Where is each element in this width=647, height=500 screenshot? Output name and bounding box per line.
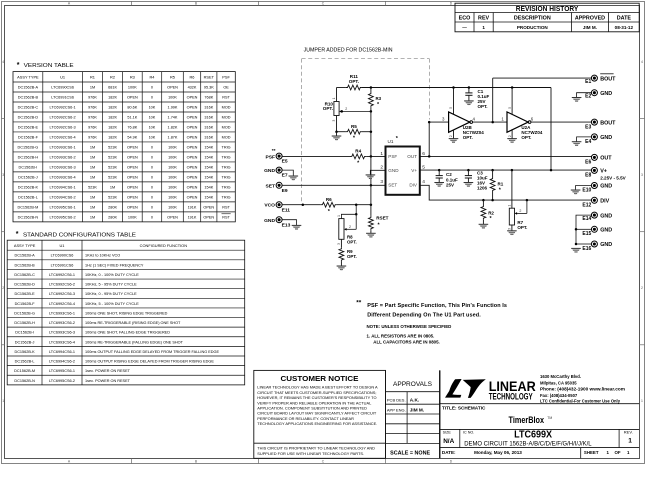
svg-text:DATE: DATE <box>617 16 632 22</box>
svg-text:V+: V+ <box>600 169 607 175</box>
svg-text:DC1562B-H: DC1562B-H <box>18 156 39 160</box>
ground E2 <box>572 97 582 99</box>
svg-text:DC1562B-C: DC1562B-C <box>14 273 35 277</box>
inverter U2B NC7WZ04 <box>449 112 470 132</box>
svg-text:E1: E1 <box>585 79 591 85</box>
svg-text:LTC6992CS6-4: LTC6992CS6-4 <box>49 302 75 306</box>
svg-text:100K: 100K <box>168 96 177 100</box>
svg-text:LTC6992CS6-3: LTC6992CS6-3 <box>50 126 76 130</box>
svg-text:LTC6993CS6-2: LTC6993CS6-2 <box>49 321 75 325</box>
svg-text:154K: 154K <box>204 166 213 170</box>
svg-text:SET: SET <box>265 183 275 189</box>
connector E9 <box>276 182 282 188</box>
svg-text:E7: E7 <box>282 173 288 179</box>
svg-text:OPEN: OPEN <box>187 106 198 110</box>
connector E2 <box>591 90 597 96</box>
svg-text:TRIG: TRIG <box>222 186 231 190</box>
ground R9 <box>337 265 347 267</box>
svg-text:DC1562B-G: DC1562B-G <box>18 146 39 150</box>
svg-text:OPEN: OPEN <box>127 96 138 100</box>
wire E7 to ground <box>282 170 293 176</box>
svg-text:CUSTOMER NOTICE: CUSTOMER NOTICE <box>281 374 359 383</box>
svg-text:GND: GND <box>600 242 612 248</box>
svg-text:GND: GND <box>388 168 399 173</box>
connector E13 <box>276 217 282 223</box>
svg-text:1M: 1M <box>90 86 95 90</box>
svg-text:6: 6 <box>531 117 534 122</box>
wire PSF line <box>282 155 351 157</box>
svg-text:LTC6995CS6-1: LTC6995CS6-1 <box>49 369 75 373</box>
svg-text:DC1562B-N: DC1562B-N <box>18 215 39 219</box>
resistor R11 <box>346 85 362 90</box>
svg-text:LTC6993CS6-4: LTC6993CS6-4 <box>49 340 75 344</box>
svg-text:OPEN: OPEN <box>203 205 214 209</box>
svg-text:1M: 1M <box>90 146 95 150</box>
wire VCC rail <box>337 87 346 89</box>
svg-text:3: 3 <box>641 173 643 177</box>
svg-text:54.9K: 54.9K <box>127 136 137 140</box>
svg-text:U1: U1 <box>60 243 65 248</box>
svg-text:PRODUCTION: PRODUCTION <box>517 25 549 30</box>
connector E12 <box>591 197 597 203</box>
svg-text:0: 0 <box>151 176 153 180</box>
svg-text:2: 2 <box>2 286 4 290</box>
resistor R9 <box>340 239 342 247</box>
svg-text:976K: 976K <box>88 136 97 140</box>
svg-text:Different Depending On The U1: Different Depending On The U1 Part used. <box>367 313 481 319</box>
svg-text:95.3K: 95.3K <box>204 86 214 90</box>
ground U2A <box>507 138 517 140</box>
svg-text:DC1562B-G: DC1562B-G <box>14 311 35 315</box>
svg-text:E2: E2 <box>585 94 591 100</box>
svg-text:182K: 182K <box>108 136 117 140</box>
svg-text:10K: 10K <box>149 106 156 110</box>
svg-text:5: 5 <box>449 107 453 109</box>
svg-text:R4: R4 <box>355 149 361 154</box>
svg-text:10KHz, 0 - 95% DUTY CYCLE: 10KHz, 0 - 95% DUTY CYCLE <box>85 292 137 296</box>
svg-text:LTC6993CS6-1: LTC6993CS6-1 <box>49 311 75 315</box>
svg-text:LTC6990CS6: LTC6990CS6 <box>51 86 74 90</box>
svg-text:1KHz to 10KHz VCO: 1KHz to 10KHz VCO <box>85 254 120 258</box>
svg-text:OPEN: OPEN <box>127 166 138 170</box>
svg-text:TRIG: TRIG <box>222 176 231 180</box>
svg-text:LTC6992CS6-2: LTC6992CS6-2 <box>50 116 76 120</box>
svg-text:OPEN: OPEN <box>187 116 198 120</box>
svg-text:OPEN: OPEN <box>187 176 198 180</box>
wire SET line <box>282 184 385 186</box>
svg-text:1.99K: 1.99K <box>168 106 178 110</box>
svg-text:1M: 1M <box>90 166 95 170</box>
svg-text:TECHNOLOGY: TECHNOLOGY <box>489 391 533 401</box>
svg-text:1: 1 <box>332 97 336 99</box>
svg-text:LTC6994CS6-1: LTC6994CS6-1 <box>49 350 75 354</box>
connector E3 <box>591 119 597 125</box>
svg-text:ASSY TYPE: ASSY TYPE <box>17 75 39 80</box>
resistor RSET <box>370 205 372 216</box>
svg-text:LTC6994CS6-1: LTC6994CS6-1 <box>50 186 76 190</box>
svg-text:316K: 316K <box>204 126 213 130</box>
svg-text:100K: 100K <box>168 186 177 190</box>
svg-text:JIM M.: JIM M. <box>583 25 597 30</box>
svg-text:08-31-12: 08-31-12 <box>615 25 634 30</box>
svg-text:DC1562B-M: DC1562B-M <box>17 205 38 209</box>
svg-text:APPROVED: APPROVED <box>575 16 605 22</box>
svg-text:OPT.: OPT. <box>463 135 473 140</box>
wire E4 ground <box>577 137 592 142</box>
svg-text:1.87K: 1.87K <box>168 136 178 140</box>
wire E2 ground <box>577 93 592 98</box>
svg-text:1sec. POWER ON RESET: 1sec. POWER ON RESET <box>85 369 131 373</box>
svg-text:PSF: PSF <box>222 75 230 80</box>
svg-text:APP ENG.: APP ENG. <box>387 408 406 413</box>
svg-text:*: * <box>378 223 381 229</box>
svg-text:OPEN: OPEN <box>127 156 138 160</box>
svg-text:B: B <box>195 459 198 463</box>
svg-text:DC1562B-K: DC1562B-K <box>18 186 39 190</box>
title block <box>254 370 386 458</box>
svg-text:25V: 25V <box>446 182 454 187</box>
svg-text:523K: 523K <box>108 195 117 199</box>
svg-text:DC1562B-J: DC1562B-J <box>15 340 35 344</box>
svg-text:DC1562B-K: DC1562B-K <box>14 350 35 354</box>
svg-text:LTC6993CS6-3: LTC6993CS6-3 <box>49 331 75 335</box>
svg-text:100K: 100K <box>128 86 137 90</box>
svg-text:*: * <box>17 62 20 69</box>
svg-text:LTC6992CS6-2: LTC6992CS6-2 <box>49 283 75 287</box>
wire R10 wiper to node <box>370 111 372 131</box>
svg-text:LTC6993CS6-1: LTC6993CS6-1 <box>50 146 76 150</box>
svg-text:CONFIGURED FUNCTION: CONFIGURED FUNCTION <box>140 243 188 248</box>
svg-text:Phone: (408)432-1900 www.li: Phone: (408)432-1900 www.linear.com <box>540 387 625 392</box>
svg-text:REV: REV <box>478 16 489 22</box>
connector E5 <box>276 153 282 159</box>
svg-text:1: 1 <box>2 399 4 403</box>
wire SET column <box>370 132 372 205</box>
svg-text:U1: U1 <box>388 139 394 144</box>
svg-text:RST: RST <box>222 215 230 219</box>
svg-text:1M: 1M <box>110 186 115 190</box>
svg-text:LTC6990CS6: LTC6990CS6 <box>51 254 74 258</box>
svg-text:ASSY TYPE: ASSY TYPE <box>14 243 36 248</box>
svg-text:2: 2 <box>349 225 351 229</box>
connector E6 <box>591 154 597 160</box>
svg-text:10K: 10K <box>149 126 156 130</box>
svg-text:R1: R1 <box>498 182 504 187</box>
ground C2 <box>434 182 444 184</box>
svg-text:D: D <box>450 459 453 463</box>
svg-text:DC1562B-F: DC1562B-F <box>15 302 36 306</box>
svg-text:DC1562B-D: DC1562B-D <box>14 283 35 287</box>
svg-text:REV.: REV. <box>624 430 633 435</box>
svg-text:GND: GND <box>600 184 612 190</box>
svg-text:0: 0 <box>151 215 153 219</box>
svg-text:OUT: OUT <box>407 154 417 159</box>
svg-text:DC1562B-F: DC1562B-F <box>18 136 39 140</box>
potentiometer R8 <box>339 219 344 240</box>
svg-text:JUMPER ADDED FOR DC1562B-MIN: JUMPER ADDED FOR DC1562B-MIN <box>304 48 393 54</box>
svg-text:0: 0 <box>151 86 153 90</box>
svg-text:1.74K: 1.74K <box>168 116 178 120</box>
svg-text:OPEN: OPEN <box>187 186 198 190</box>
svg-text:GND: GND <box>264 218 275 224</box>
svg-text:2: 2 <box>345 107 347 111</box>
wire E14-E16 ground bus <box>576 215 591 244</box>
svg-text:LTC6995CS6-1: LTC6995CS6-1 <box>50 205 76 209</box>
svg-text:280K: 280K <box>108 215 117 219</box>
svg-text:OPEN: OPEN <box>187 126 198 130</box>
svg-text:LTC699X: LTC699X <box>514 430 552 441</box>
connector E14 <box>591 212 597 218</box>
svg-text:432K: 432K <box>188 86 197 90</box>
svg-text:OPEN: OPEN <box>187 156 198 160</box>
svg-text:OPEN: OPEN <box>127 195 138 199</box>
svg-text:3: 3 <box>337 243 341 245</box>
svg-text:OPT.: OPT. <box>349 79 359 84</box>
svg-text:LTC6992CS6-4: LTC6992CS6-4 <box>50 136 76 140</box>
svg-text:2: 2 <box>519 209 521 213</box>
resistor R2 <box>482 200 484 205</box>
svg-text:RST: RST <box>222 205 230 209</box>
svg-text:2: 2 <box>508 135 512 137</box>
svg-text:*: * <box>490 216 493 222</box>
svg-text:*: * <box>396 136 399 142</box>
svg-text:VERSION TABLE: VERSION TABLE <box>24 63 74 69</box>
svg-text:DC1562B-J: DC1562B-J <box>18 176 38 180</box>
svg-text:280K: 280K <box>108 205 117 209</box>
svg-text:154K: 154K <box>204 146 213 150</box>
svg-text:2: 2 <box>380 165 383 171</box>
svg-text:3: 3 <box>508 228 512 230</box>
svg-text:154K: 154K <box>204 156 213 160</box>
ground RSET <box>366 232 376 234</box>
svg-text:DC1562B-H: DC1562B-H <box>14 321 35 325</box>
wire U2B out to U2A in <box>473 121 507 123</box>
resistor R4 <box>350 154 366 159</box>
svg-text:4: 4 <box>2 60 4 64</box>
svg-text:976K: 976K <box>88 116 97 120</box>
svg-text:TRIG: TRIG <box>222 166 231 170</box>
resistor R3 <box>370 88 372 93</box>
ground C3 <box>464 182 474 184</box>
svg-text:100K: 100K <box>128 215 137 219</box>
wire BOUTbar net <box>492 78 494 122</box>
ground R5 <box>336 132 338 136</box>
svg-text:LTC6995CS6-2: LTC6995CS6-2 <box>50 215 76 219</box>
svg-text:DC1562B-E: DC1562B-E <box>14 292 35 296</box>
svg-text:Milpitas, CA 95035: Milpitas, CA 95035 <box>540 380 577 385</box>
svg-text:523K: 523K <box>108 146 117 150</box>
connector E10 <box>591 183 597 189</box>
svg-text:100ms RE-TRIGGERABLE (FALLING: 100ms RE-TRIGGERABLE (FALLING EDGE) ONE … <box>85 340 184 344</box>
svg-text:1M: 1M <box>90 195 95 199</box>
svg-text:E15: E15 <box>582 231 591 237</box>
svg-text:DC1562B-I: DC1562B-I <box>19 166 38 170</box>
svg-text:DC1562B-I: DC1562B-I <box>15 331 34 335</box>
svg-text:OPEN: OPEN <box>127 176 138 180</box>
svg-text:4: 4 <box>422 179 425 185</box>
svg-text:*: * <box>377 102 380 108</box>
svg-text:1M: 1M <box>90 215 95 219</box>
svg-text:SET: SET <box>388 183 397 188</box>
svg-text:SHEET: SHEET <box>584 450 599 455</box>
svg-text:100ms ONE SHOT, FALLING EDGE T: 100ms ONE SHOT, FALLING EDGE TRIGGERED <box>85 331 170 335</box>
svg-text:DC1562B-L: DC1562B-L <box>18 195 38 199</box>
svg-text:OF: OF <box>615 450 621 455</box>
svg-text:R4: R4 <box>149 75 155 80</box>
svg-text:PSF: PSF <box>388 154 397 159</box>
svg-text:E11: E11 <box>282 207 291 213</box>
svg-text:*: * <box>16 231 19 238</box>
svg-text:182K: 182K <box>108 126 117 130</box>
svg-text:10K: 10K <box>149 116 156 120</box>
svg-text:MOD: MOD <box>222 116 231 120</box>
svg-text:MOD: MOD <box>222 106 231 110</box>
svg-text:0: 0 <box>151 156 153 160</box>
ground E13 <box>292 224 302 226</box>
svg-text:4: 4 <box>641 60 643 64</box>
svg-text:PSF: PSF <box>265 154 275 160</box>
svg-text:E13: E13 <box>282 222 291 228</box>
svg-text:LTC6995CS6-2: LTC6995CS6-2 <box>49 379 75 383</box>
svg-text:DIV: DIV <box>600 199 609 205</box>
op-amp U1 LTC699X <box>386 147 420 195</box>
svg-text:3: 3 <box>2 173 4 177</box>
svg-text:1sec. POWER ON RESET: 1sec. POWER ON RESET <box>85 379 131 383</box>
svg-text:681K: 681K <box>108 86 117 90</box>
jumper dashed box <box>302 58 430 60</box>
capacitor C1 <box>468 88 470 93</box>
svg-text:R6: R6 <box>190 75 195 80</box>
svg-text:76.8K: 76.8K <box>127 126 137 130</box>
wire R8 branch <box>355 205 357 215</box>
svg-text:DESCRIPTION: DESCRIPTION <box>514 16 551 22</box>
svg-text:Fax: (408)434-0507: Fax: (408)434-0507 <box>540 393 578 398</box>
svg-text:R6: R6 <box>326 197 332 202</box>
svg-text:ALL CAPACITORS ARE IN 0805.: ALL CAPACITORS ARE IN 0805. <box>373 339 439 344</box>
ground R2 <box>479 223 489 225</box>
svg-text:E16: E16 <box>582 246 591 252</box>
svg-text:R5: R5 <box>351 124 357 129</box>
svg-text:OPEN: OPEN <box>187 166 198 170</box>
svg-text:*: * <box>499 187 502 193</box>
resistor R6 <box>321 202 337 207</box>
svg-text:PCB DES.: PCB DES. <box>387 397 406 402</box>
svg-text:OPEN: OPEN <box>127 205 138 209</box>
svg-text:191K: 191K <box>188 205 197 209</box>
svg-text:*: * <box>353 136 356 142</box>
wire U1 GND pin <box>370 170 385 175</box>
connector E1 <box>591 75 597 81</box>
ground E4 <box>572 141 582 143</box>
svg-text:*: * <box>357 161 360 167</box>
svg-text:LTC6992CS6-3: LTC6992CS6-3 <box>49 292 75 296</box>
svg-text:316K: 316K <box>204 136 213 140</box>
svg-text:ECO: ECO <box>459 16 471 22</box>
svg-text:182K: 182K <box>108 96 117 100</box>
svg-text:316K: 316K <box>204 106 213 110</box>
svg-text:OPT.: OPT. <box>323 106 333 111</box>
capacitor C2 <box>438 170 440 176</box>
svg-text:SUPPLIED FOR USE WITH LINEAR T: SUPPLIED FOR USE WITH LINEAR TECHNOLOGY … <box>257 451 364 456</box>
svg-text:R2: R2 <box>110 75 115 80</box>
connector E8 <box>591 167 597 173</box>
svg-text:154K: 154K <box>204 176 213 180</box>
svg-text:GND: GND <box>600 135 612 141</box>
svg-text:STANDARD CONFIGURATIONS TABLE: STANDARD CONFIGURATIONS TABLE <box>23 233 136 239</box>
svg-text:1: 1 <box>627 450 630 455</box>
svg-text:1M: 1M <box>90 205 95 209</box>
svg-text:1.82K: 1.82K <box>168 126 178 130</box>
svg-text:976K: 976K <box>88 126 97 130</box>
svg-text:1: 1 <box>380 151 383 157</box>
ground U1 <box>366 174 376 176</box>
svg-text:0: 0 <box>151 166 153 170</box>
svg-text:182K: 182K <box>108 116 117 120</box>
svg-text:100K: 100K <box>168 166 177 170</box>
svg-text:TM: TM <box>547 416 552 420</box>
svg-text:154K: 154K <box>204 195 213 199</box>
svg-text:LTC6993CS6-4: LTC6993CS6-4 <box>50 176 76 180</box>
svg-text:OPEN: OPEN <box>187 136 198 140</box>
ground U2B <box>449 138 459 140</box>
svg-text:OPT.: OPT. <box>521 135 531 140</box>
svg-text:GND: GND <box>600 228 612 234</box>
wire U2A out to E3 <box>531 121 591 123</box>
svg-text:GND: GND <box>264 168 275 174</box>
svg-text:100K: 100K <box>168 146 177 150</box>
svg-text:1206: 1206 <box>477 186 488 191</box>
svg-text:1630 McCarthy Blvd.: 1630 McCarthy Blvd. <box>540 374 581 379</box>
connector E15 <box>591 226 597 232</box>
svg-text:0: 0 <box>151 96 153 100</box>
svg-text:E4: E4 <box>585 139 591 145</box>
svg-text:1: 1 <box>628 437 632 444</box>
svg-text:DEMO CIRCUIT 1562B-A/B/C/D/E/F: DEMO CIRCUIT 1562B-A/B/C/D/E/F/G/H/I/J/K… <box>464 441 592 447</box>
svg-text:1Hz (1 SEC) FIXED FREQUENCY: 1Hz (1 SEC) FIXED FREQUENCY <box>85 263 144 267</box>
connector E16 <box>591 241 597 247</box>
svg-text:10KHz, 0 - 100% DUTY CYCLE: 10KHz, 0 - 100% DUTY CYCLE <box>85 273 139 277</box>
svg-text:TRIG: TRIG <box>222 146 231 150</box>
svg-text:1M: 1M <box>90 176 95 180</box>
svg-text:0: 0 <box>151 186 153 190</box>
svg-text:DC1562B-L: DC1562B-L <box>15 360 35 364</box>
svg-text:DC1562B-N: DC1562B-N <box>14 379 35 383</box>
svg-text:1: 1 <box>641 399 643 403</box>
svg-text:DC1562B-E: DC1562B-E <box>18 126 39 130</box>
svg-text:5: 5 <box>508 107 512 109</box>
svg-text:R3: R3 <box>376 96 382 101</box>
wire DIV net <box>420 185 592 200</box>
svg-text:C: C <box>322 459 325 463</box>
svg-text:1M: 1M <box>90 156 95 160</box>
svg-text:N/A: N/A <box>443 438 454 445</box>
ground E7 <box>289 175 299 177</box>
svg-text:R2: R2 <box>488 211 494 216</box>
svg-text:E6: E6 <box>585 160 591 166</box>
svg-text:51.1K: 51.1K <box>127 116 137 120</box>
svg-text:OPEN: OPEN <box>203 215 214 219</box>
svg-text:LTC6993CS6-2: LTC6993CS6-2 <box>50 156 76 160</box>
svg-text:10KHz, 5 - 100% DUTY CYCLE: 10KHz, 5 - 100% DUTY CYCLE <box>85 302 139 306</box>
svg-text:768K: 768K <box>204 96 213 100</box>
svg-text:RST: RST <box>222 96 230 100</box>
svg-text:0: 0 <box>151 195 153 199</box>
svg-text:4: 4 <box>473 117 476 122</box>
svg-text:LTC6994CS6-2: LTC6994CS6-2 <box>50 195 76 199</box>
svg-text:100K: 100K <box>168 195 177 199</box>
wire R6 to node <box>337 204 371 206</box>
ground C1 <box>464 100 474 102</box>
